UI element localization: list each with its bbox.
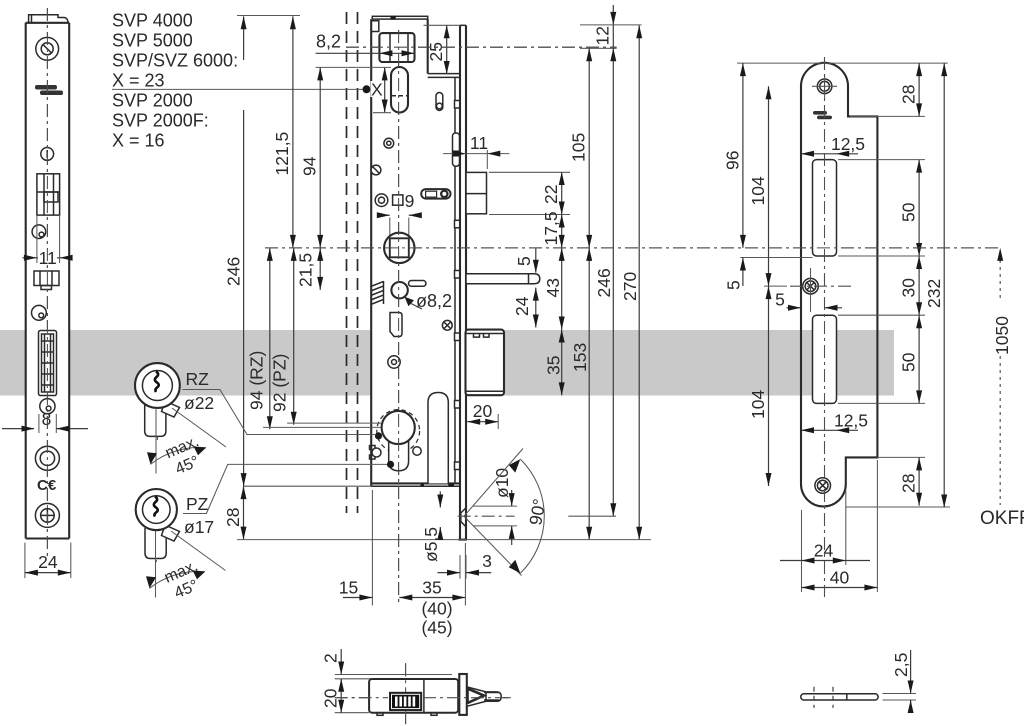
svg-text:12,5: 12,5 (831, 134, 865, 154)
svg-text:121,5: 121,5 (272, 132, 292, 176)
svg-text:8,2: 8,2 (316, 32, 341, 52)
svg-text:X = 23: X = 23 (112, 71, 165, 91)
svg-text:3: 3 (482, 551, 492, 571)
svg-text:SVP/SVZ 6000:: SVP/SVZ 6000: (112, 51, 238, 71)
svg-text:28: 28 (899, 474, 919, 493)
svg-text:8: 8 (42, 409, 52, 429)
svg-text:5: 5 (514, 256, 534, 266)
svg-text:94: 94 (300, 156, 320, 176)
svg-text:43: 43 (543, 278, 563, 297)
svg-text:ø17: ø17 (184, 517, 214, 537)
svg-text:ø22: ø22 (184, 393, 214, 413)
svg-text:RZ: RZ (186, 369, 210, 389)
svg-text:2,5: 2,5 (891, 653, 911, 677)
svg-text:246: 246 (594, 268, 614, 297)
svg-text:11: 11 (470, 133, 488, 153)
svg-text:22: 22 (541, 185, 561, 204)
svg-text:15: 15 (339, 578, 358, 598)
svg-text:OKFF: OKFF (980, 508, 1024, 529)
svg-text:270: 270 (620, 272, 640, 301)
svg-text:9: 9 (405, 191, 415, 211)
svg-text:105: 105 (569, 133, 589, 162)
svg-text:50: 50 (899, 352, 919, 372)
svg-text:94 (RZ): 94 (RZ) (247, 351, 267, 410)
svg-text:X = 16: X = 16 (112, 131, 165, 151)
svg-text:12,5: 12,5 (834, 411, 868, 431)
svg-text:232: 232 (924, 279, 944, 308)
svg-text:PZ: PZ (186, 494, 209, 514)
svg-text:1050: 1050 (992, 316, 1012, 355)
svg-text:92 (PZ): 92 (PZ) (270, 354, 290, 412)
svg-text:24: 24 (38, 552, 58, 572)
svg-text:X: X (371, 80, 383, 100)
svg-text:50: 50 (899, 202, 919, 222)
svg-text:SVP 2000F:: SVP 2000F: (112, 111, 209, 131)
svg-text:28: 28 (223, 508, 243, 527)
svg-text:25: 25 (426, 42, 446, 61)
svg-text:(45): (45) (421, 618, 452, 638)
svg-text:40: 40 (830, 568, 850, 588)
svg-text:30: 30 (899, 278, 919, 298)
svg-text:96: 96 (723, 151, 743, 170)
svg-text:246: 246 (224, 257, 244, 286)
svg-text:24: 24 (814, 541, 834, 561)
svg-text:SVP 2000: SVP 2000 (112, 91, 193, 111)
svg-text:ø8,2: ø8,2 (416, 291, 452, 311)
svg-text:SVP 4000: SVP 4000 (112, 11, 193, 31)
svg-text:35: 35 (422, 578, 441, 598)
svg-text:5: 5 (724, 280, 744, 290)
svg-text:21,5: 21,5 (296, 253, 316, 287)
svg-text:28: 28 (899, 85, 919, 104)
svg-text:SVP 5000: SVP 5000 (112, 31, 193, 51)
svg-text:17,5: 17,5 (541, 211, 561, 245)
svg-text:(40): (40) (421, 599, 452, 619)
svg-text:104: 104 (748, 176, 768, 205)
svg-text:104: 104 (748, 390, 768, 419)
svg-text:153: 153 (570, 343, 590, 372)
svg-text:12: 12 (593, 26, 613, 45)
svg-text:35: 35 (544, 356, 564, 375)
svg-text:24: 24 (512, 296, 532, 316)
svg-text:20: 20 (473, 401, 493, 421)
svg-text:2: 2 (321, 653, 341, 663)
svg-text:5: 5 (775, 290, 785, 310)
svg-text:ø5,5: ø5,5 (421, 527, 441, 562)
